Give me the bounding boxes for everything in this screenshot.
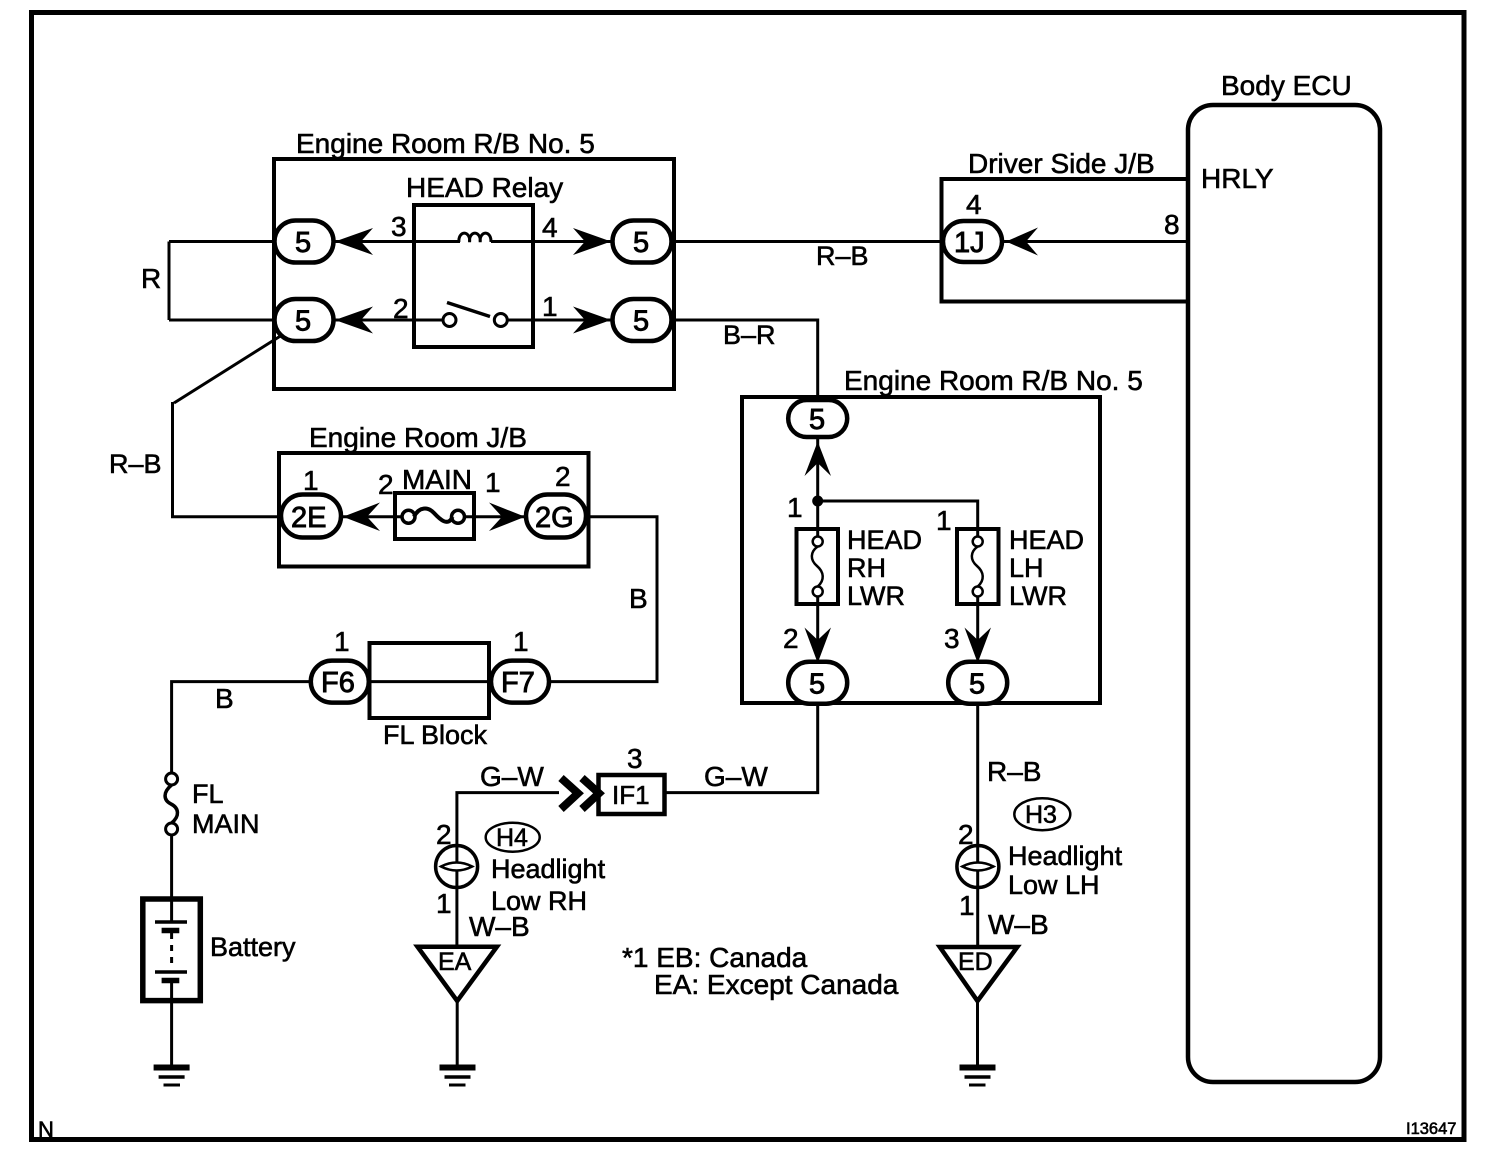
box Engine Room R/B No.5 (right) bbox=[742, 397, 1100, 703]
FL Block box bbox=[370, 643, 490, 718]
wire diagonal from relay oval to R-B feed bbox=[174, 330, 290, 403]
wire ED triangle to ground bbox=[976, 1001, 979, 1066]
ground ED triangle bbox=[940, 947, 1018, 1001]
connector 5 (relay row1 left) bbox=[275, 221, 334, 263]
wire through headlight RH bulb to EA ground bbox=[455, 846, 458, 948]
svg-text:5: 5 bbox=[633, 227, 649, 259]
wire R-B from LH fuse oval to bulb bbox=[976, 702, 979, 846]
wire R-B vertical to 2E bbox=[173, 402, 312, 517]
svg-text:LWR: LWR bbox=[847, 581, 905, 611]
arrow (row2 right, male) bbox=[573, 307, 611, 334]
svg-text:ED: ED bbox=[958, 948, 993, 976]
wire R-B row1 to Driver Side J/B bbox=[642, 240, 1188, 243]
svg-text:R–B: R–B bbox=[816, 241, 869, 271]
arrow (right box top, up) bbox=[805, 442, 832, 477]
arrow (2G) bbox=[489, 503, 525, 532]
svg-text:IF1: IF1 bbox=[612, 780, 650, 810]
svg-text:5: 5 bbox=[809, 669, 825, 701]
relay switch blade bbox=[447, 303, 490, 317]
svg-text:Low LH: Low LH bbox=[1008, 870, 1100, 900]
svg-text:2: 2 bbox=[958, 819, 974, 850]
svg-text:N: N bbox=[38, 1117, 54, 1142]
relay HEAD Relay box bbox=[414, 205, 533, 347]
svg-text:1: 1 bbox=[959, 890, 975, 921]
relay switch contact left bbox=[443, 314, 456, 327]
svg-text:H3: H3 bbox=[1025, 801, 1057, 829]
svg-text:1: 1 bbox=[513, 626, 529, 657]
arrow (LH fuse, down) bbox=[965, 628, 992, 664]
connector 1J bbox=[943, 221, 1002, 262]
svg-text:F6: F6 bbox=[321, 667, 355, 699]
svg-text:Engine Room R/B No. 5: Engine Room R/B No. 5 bbox=[296, 128, 595, 159]
svg-text:1: 1 bbox=[334, 626, 350, 657]
arrow (RH fuse, down) bbox=[805, 628, 832, 664]
svg-text:FL Block: FL Block bbox=[383, 720, 488, 750]
svg-text:G–W: G–W bbox=[704, 761, 768, 792]
relay coil bbox=[459, 233, 491, 242]
arrow (2E) bbox=[343, 503, 380, 532]
bulb Headlight Low LH bbox=[957, 846, 999, 888]
wire fuse feed inside right box with junction bbox=[816, 436, 819, 536]
svg-text:5: 5 bbox=[295, 227, 311, 259]
arrow (row1 right, male) bbox=[573, 228, 611, 255]
wire R loop left vertical bbox=[168, 242, 171, 321]
svg-text:1: 1 bbox=[485, 467, 501, 498]
svg-text:1J: 1J bbox=[954, 227, 985, 259]
svg-text:2: 2 bbox=[783, 623, 799, 654]
wire row2 right bbox=[507, 319, 642, 322]
svg-text:RH: RH bbox=[847, 553, 886, 583]
ground (EA) bbox=[440, 1065, 476, 1071]
fuse MAIN box bbox=[395, 493, 474, 539]
svg-text:2E: 2E bbox=[291, 502, 326, 534]
svg-text:B–R: B–R bbox=[723, 320, 776, 350]
wire EA triangle to ground bbox=[456, 1001, 459, 1066]
connector IF1 bbox=[599, 775, 665, 814]
svg-text:LH: LH bbox=[1009, 553, 1044, 583]
svg-text:1: 1 bbox=[542, 291, 558, 322]
svg-text:Headlight: Headlight bbox=[491, 854, 606, 884]
svg-text:5: 5 bbox=[809, 404, 825, 436]
wire HEAD RH fuse to arrow bbox=[816, 597, 819, 640]
svg-text:3: 3 bbox=[627, 743, 643, 774]
svg-text:HEAD: HEAD bbox=[847, 525, 922, 555]
wire FL MAIN to battery bbox=[170, 835, 173, 900]
fuse HEAD LH LWR box bbox=[957, 529, 999, 604]
connector 5 (relay row2 left) bbox=[275, 299, 334, 341]
box Engine Room R/B No.5 (top left) bbox=[274, 159, 674, 389]
wire row1 left (R) bbox=[169, 240, 460, 243]
arrow (row1 left, female) bbox=[335, 228, 373, 255]
svg-text:HEAD Relay: HEAD Relay bbox=[406, 172, 563, 203]
svg-text:I13647: I13647 bbox=[1406, 1120, 1456, 1138]
wire branch to HEAD LH fuse bbox=[818, 501, 978, 536]
svg-text:2: 2 bbox=[436, 819, 452, 850]
svg-text:Body ECU: Body ECU bbox=[1221, 70, 1352, 101]
svg-text:1: 1 bbox=[936, 505, 952, 536]
wire 2E to MAIN fuse bbox=[311, 515, 405, 518]
svg-text:4: 4 bbox=[542, 212, 558, 243]
fusible link FL MAIN bbox=[166, 773, 178, 785]
svg-text:3: 3 bbox=[944, 623, 960, 654]
ground EA triangle bbox=[418, 947, 497, 1001]
wire battery to ground bbox=[170, 1001, 173, 1066]
svg-text:1: 1 bbox=[787, 492, 803, 523]
connector H3 oval bbox=[1014, 798, 1070, 830]
box Driver Side J/B bbox=[942, 179, 1189, 302]
svg-text:W–B: W–B bbox=[988, 909, 1049, 940]
svg-text:HEAD: HEAD bbox=[1009, 525, 1084, 555]
fuse HEAD RH LWR box bbox=[797, 529, 839, 604]
svg-text:FL: FL bbox=[192, 779, 224, 809]
svg-text:F7: F7 bbox=[501, 667, 535, 699]
svg-text:5: 5 bbox=[969, 669, 985, 701]
ground (battery) bbox=[154, 1065, 190, 1071]
chevron splice bbox=[561, 778, 578, 809]
connector 2G bbox=[526, 495, 586, 538]
Body ECU bbox=[1188, 105, 1380, 1082]
svg-text:B: B bbox=[215, 683, 234, 714]
ground (ED) bbox=[960, 1065, 996, 1071]
svg-text:MAIN: MAIN bbox=[402, 464, 472, 495]
svg-text:H4: H4 bbox=[496, 824, 528, 852]
wire through FL Block F7 to F6 bbox=[340, 680, 520, 683]
connector 5 (relay row1 right) bbox=[613, 221, 672, 263]
connector 5 (right box top) bbox=[788, 400, 847, 437]
arrow (row2 left, female) bbox=[335, 307, 373, 334]
svg-text:4: 4 bbox=[966, 189, 982, 220]
wire B from 2G down to F7 bbox=[520, 517, 657, 682]
connector 5 (right box bottom left) bbox=[788, 662, 847, 704]
connector 5 (relay row2 right) bbox=[613, 299, 672, 341]
svg-text:HRLY: HRLY bbox=[1201, 163, 1274, 194]
wire row1 right inside relay to oval bbox=[491, 240, 642, 243]
svg-text:Headlight: Headlight bbox=[1008, 841, 1123, 871]
wire row2 left (R) bbox=[169, 319, 443, 322]
svg-text:EA: Except Canada: EA: Except Canada bbox=[654, 969, 899, 1000]
junction node bbox=[812, 496, 823, 507]
svg-text:G–W: G–W bbox=[480, 761, 544, 792]
wire MAIN fuse to 2G bbox=[461, 515, 556, 518]
svg-text:Engine Room R/B No. 5: Engine Room R/B No. 5 bbox=[844, 365, 1143, 396]
box Engine Room J/B bbox=[279, 453, 589, 567]
fuse MAIN symbol bbox=[402, 510, 415, 523]
svg-text:5: 5 bbox=[295, 306, 311, 338]
wire W-B through bulb LH to ED bbox=[976, 846, 979, 948]
svg-text:MAIN: MAIN bbox=[192, 809, 260, 839]
svg-text:Engine Room J/B: Engine Room J/B bbox=[309, 422, 527, 453]
svg-text:2G: 2G bbox=[535, 502, 574, 534]
wire G-W left of IF1 bbox=[457, 793, 559, 846]
svg-text:B: B bbox=[629, 583, 648, 614]
svg-text:Battery: Battery bbox=[210, 932, 296, 962]
svg-text:3: 3 bbox=[391, 211, 407, 242]
wire HEAD LH fuse to arrow bbox=[976, 597, 979, 640]
svg-text:2: 2 bbox=[378, 469, 394, 500]
svg-text:1: 1 bbox=[436, 888, 452, 919]
battery bbox=[143, 899, 201, 1001]
svg-text:5: 5 bbox=[633, 306, 649, 338]
svg-text:EA: EA bbox=[438, 948, 472, 976]
svg-text:2: 2 bbox=[555, 461, 571, 492]
wire B from F6 down to FL MAIN bbox=[172, 682, 340, 774]
connector 2E bbox=[281, 495, 341, 538]
wire G-W from RH fuse oval to IF1 bbox=[665, 702, 818, 793]
svg-text:LWR: LWR bbox=[1009, 581, 1067, 611]
relay switch contact right bbox=[494, 314, 507, 327]
connector 5 (right box bottom right) bbox=[948, 662, 1007, 704]
bulb Headlight Low RH bbox=[436, 846, 478, 888]
svg-text:1: 1 bbox=[303, 465, 319, 496]
wire B-R to right R/B box bbox=[642, 320, 818, 402]
connector H4 oval bbox=[486, 823, 540, 852]
svg-text:R: R bbox=[141, 263, 161, 294]
arrow (1J) bbox=[1006, 228, 1038, 256]
svg-text:8: 8 bbox=[1164, 209, 1180, 240]
svg-text:R–B: R–B bbox=[987, 756, 1041, 787]
svg-text:W–B: W–B bbox=[469, 911, 530, 942]
svg-text:R–B: R–B bbox=[109, 449, 162, 479]
svg-text:2: 2 bbox=[393, 293, 409, 324]
connector F6 bbox=[311, 661, 369, 703]
svg-text:Driver Side J/B: Driver Side J/B bbox=[968, 148, 1155, 179]
connector F7 bbox=[491, 661, 549, 703]
